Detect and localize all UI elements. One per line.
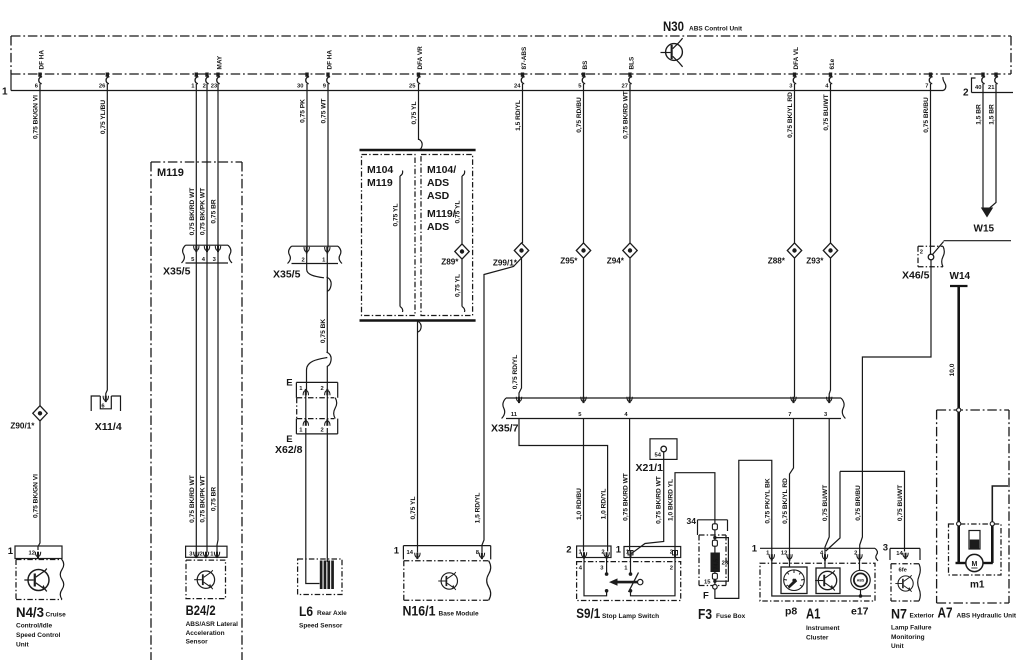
svg-text:3: 3 (189, 552, 193, 558)
svg-text:0,75 BK/RD WT: 0,75 BK/RD WT (622, 473, 629, 521)
svg-text:Fuse Box: Fuse Box (716, 613, 746, 620)
svg-text:M119: M119 (157, 167, 184, 179)
fuse box frame (698, 520, 728, 535)
svg-text:0,75 BK/RD WT: 0,75 BK/RD WT (656, 476, 663, 524)
wires X62/8 to L6 (306, 428, 320, 584)
M104/M119 left variant box (362, 155, 416, 316)
svg-text:0,75 RD/BU: 0,75 RD/BU (576, 97, 583, 133)
svg-text:1,5 RD/YL: 1,5 RD/YL (515, 100, 522, 131)
wire 0,75 BU/WT from pin 4 (830, 84, 832, 243)
svg-text:Z89*: Z89* (441, 258, 459, 267)
switch plunger (613, 581, 638, 584)
fuse element (711, 553, 720, 573)
wire 0,75 YL/BU from pin 26 (106, 84, 108, 396)
svg-text:1,5 BR: 1,5 BR (976, 104, 983, 125)
transistor in B24/2 (194, 570, 214, 589)
pin 1 (191, 73, 198, 90)
svg-text:1,0 BK/RD YL: 1,0 BK/RD YL (668, 479, 675, 521)
L6 rear axle speed sensor (298, 559, 342, 595)
svg-text:7: 7 (925, 84, 928, 90)
internal loop to terminal 23 (715, 538, 729, 582)
svg-text:0,75 BU/WT: 0,75 BU/WT (823, 94, 830, 130)
wire 0,75 WT from pin 9 (327, 84, 329, 248)
S9/1 connector 2 (pins 1,2) (566, 545, 611, 559)
svg-text:X11/4: X11/4 (95, 421, 122, 433)
svg-text:0,75 BK/RD WT: 0,75 BK/RD WT (623, 91, 630, 139)
svg-text:0,75 BK/YL RD: 0,75 BK/YL RD (782, 478, 789, 524)
svg-text:Cluster: Cluster (806, 635, 829, 642)
svg-text:p8: p8 (785, 606, 797, 618)
svg-text:ABS Control Unit: ABS Control Unit (689, 26, 743, 33)
svg-text:Monitoring: Monitoring (891, 634, 925, 641)
exit hook below box (418, 321, 422, 332)
svg-text:Z90/1*: Z90/1* (10, 422, 35, 431)
svg-text:0,75 BK/PK WT: 0,75 BK/PK WT (200, 475, 207, 522)
connector on B24/2 pins 3,2,1 (186, 546, 227, 558)
branch to X62/8 pin 1 (307, 358, 328, 391)
svg-text:0,75 BK/GN VI: 0,75 BK/GN VI (33, 95, 40, 139)
svg-text:0,75 YL: 0,75 YL (410, 497, 417, 520)
M104/ADS right variant box (421, 155, 473, 316)
svg-text:M104: M104 (367, 164, 393, 176)
svg-text:Z88*: Z88* (768, 257, 786, 266)
svg-text:2: 2 (199, 552, 202, 558)
wire 0,75 BK/RD WT from X21/1 to S9/1 pin 1 (632, 452, 664, 554)
svg-text:0,75 WT: 0,75 WT (321, 99, 328, 124)
S9/1 switch box (577, 562, 681, 601)
pin 23 MAY (211, 55, 224, 89)
svg-text:2: 2 (920, 250, 923, 256)
svg-text:5: 5 (578, 412, 582, 418)
svg-text:0,75 BR/BU: 0,75 BR/BU (923, 97, 930, 133)
wire 0,75 PK/YL BK from fuse to A1 pin 1 (715, 460, 772, 598)
node Z94* (623, 243, 637, 258)
svg-text:0,75 YL: 0,75 YL (455, 274, 462, 297)
motor m1 (957, 526, 960, 564)
wire 0,75 YL inside left box (399, 176, 401, 307)
svg-text:4: 4 (825, 84, 829, 90)
svg-text:ADS: ADS (427, 177, 449, 189)
relay element in m1 (969, 531, 980, 550)
svg-text:Instrument: Instrument (806, 625, 840, 632)
A7 hydraulic unit box (937, 410, 1009, 603)
svg-text:1,5 BR: 1,5 BR (989, 104, 996, 125)
transistor in N16/1 (438, 572, 457, 590)
svg-text:10,0: 10,0 (949, 363, 956, 376)
svg-text:30: 30 (297, 84, 303, 90)
svg-text:0,75 YL: 0,75 YL (411, 102, 418, 125)
svg-text:1: 1 (191, 84, 195, 90)
svg-text:2: 2 (566, 545, 571, 556)
svg-text:MAY: MAY (217, 55, 224, 69)
svg-text:ABS: ABS (857, 578, 865, 582)
svg-text:ABS/ASR Lateral: ABS/ASR Lateral (186, 621, 239, 628)
branch 0,75 BU/WT to N7 pin 14 (826, 471, 840, 551)
svg-text:A7: A7 (938, 606, 953, 622)
gauge p8 speedometer (781, 558, 807, 594)
wire 1,5 RD/YL from pin 24 (522, 84, 524, 243)
wire 0,75 BK/RD WT from pin 1 (195, 84, 197, 246)
svg-text:0,75 BK: 0,75 BK (320, 319, 327, 343)
wire 0,75 BU/WT from pin 3 to A1 pin 4 (825, 419, 829, 556)
pin 40 (975, 73, 985, 92)
svg-text:DF HA: DF HA (327, 50, 334, 70)
svg-text:3: 3 (883, 543, 888, 554)
svg-text:5: 5 (578, 84, 582, 90)
node Z88* (787, 243, 801, 258)
connector on N16/1 pins 14,8 (394, 546, 491, 560)
wire 0,75 PK from pin 30 (306, 84, 308, 248)
svg-text:X62/8: X62/8 (275, 444, 303, 456)
wire 0,75 YL inside right box (461, 176, 463, 244)
wire 1,0 RD/YL from pin 11 to S9/1 (519, 419, 608, 552)
svg-text:S9/1: S9/1 (576, 605, 600, 621)
svg-text:Base Module: Base Module (439, 611, 479, 618)
svg-text:6: 6 (35, 84, 39, 90)
svg-text:0,75 BU/WT: 0,75 BU/WT (822, 485, 829, 521)
pin 21 (988, 73, 998, 92)
pin 6 DF HA (35, 50, 46, 90)
svg-text:2: 2 (963, 88, 969, 99)
wire pair merging to shield (307, 264, 324, 278)
svg-text:1: 1 (210, 552, 214, 558)
svg-text:DF HA: DF HA (39, 50, 46, 70)
svg-text:2: 2 (321, 386, 324, 392)
svg-text:Control/Idle: Control/Idle (16, 623, 52, 630)
svg-text:12: 12 (29, 551, 35, 557)
svg-text:0,75 BK/PK WT: 0,75 BK/PK WT (200, 188, 207, 235)
wire Z94 to X35/7 pin 4 (629, 258, 631, 397)
svg-text:1: 1 (8, 546, 14, 557)
wire 0,75 YL to N16/1 pin 14 (417, 321, 419, 553)
svg-text:5: 5 (191, 257, 195, 263)
pin 24 87-ABS (514, 46, 528, 89)
svg-text:1: 1 (2, 87, 8, 98)
svg-text:2: 2 (301, 258, 304, 264)
svg-text:X35/5: X35/5 (163, 266, 191, 278)
svg-text:3: 3 (213, 257, 217, 263)
wire 0,75 RD/BU from pin 5 (583, 84, 585, 243)
wire Z88 to X35/7 pin 7 (794, 258, 796, 397)
transistor in N7 (895, 575, 913, 592)
pin 7 (925, 73, 932, 90)
S9/1 connector 1 (pins 1,2) (616, 545, 681, 558)
svg-text:W15: W15 (974, 224, 995, 235)
branch 1,5 RD/YL to N16/1 pin 8 (482, 258, 522, 553)
svg-text:40: 40 (975, 85, 981, 91)
svg-text:Exterior: Exterior (910, 613, 935, 620)
svg-text:0,75 PK: 0,75 PK (300, 99, 307, 123)
svg-text:0,75 YL: 0,75 YL (455, 201, 462, 224)
svg-text:3: 3 (789, 84, 793, 90)
connector on N4/3, pin 12 (8, 546, 62, 559)
B24/2 sensor box (186, 560, 226, 599)
pin 3 DFA VL (789, 47, 800, 90)
wire 0,75 YL from pin 25 (418, 84, 420, 140)
svg-text:e17: e17 (851, 606, 869, 618)
internal bus line 1 (11, 74, 946, 91)
wires 1,5 BR from pins 40,21 (982, 84, 984, 208)
svg-text:ADS: ADS (427, 221, 449, 233)
svg-text:M119/: M119/ (427, 208, 456, 220)
svg-text:26: 26 (99, 84, 106, 90)
svg-text:1: 1 (322, 258, 326, 264)
svg-text:N30: N30 (663, 18, 684, 34)
svg-text:9: 9 (323, 84, 327, 90)
svg-text:Unit: Unit (16, 642, 29, 649)
svg-text:N4/3: N4/3 (16, 605, 44, 620)
svg-text:1: 1 (394, 546, 400, 557)
svg-text:F3: F3 (698, 606, 712, 623)
svg-text:Rear Axle: Rear Axle (317, 610, 347, 617)
N30 ABS control unit box (11, 36, 1011, 74)
svg-text:25: 25 (409, 84, 416, 90)
svg-text:0,75 RD/YL: 0,75 RD/YL (512, 355, 519, 389)
svg-text:Stop Lamp Switch: Stop Lamp Switch (602, 613, 659, 620)
svg-text:B24/2: B24/2 (186, 603, 216, 618)
svg-text:M: M (971, 561, 977, 568)
wire 0,75 RD/YL to X35/7 pin 11 (519, 258, 522, 397)
svg-text:0,75 BK/RD WT: 0,75 BK/RD WT (189, 188, 196, 236)
pin 25 DFA VR (409, 46, 424, 90)
N30 internal valve/transistor symbol (661, 38, 683, 67)
svg-text:1: 1 (752, 544, 758, 555)
svg-text:0,75 YL/BU: 0,75 YL/BU (100, 100, 107, 135)
wire 0,75 BR from pin 23 (217, 84, 219, 246)
wires X35/5 down to B24/2 (195, 263, 197, 553)
N7 box (891, 564, 919, 601)
node Z89* (455, 244, 469, 259)
svg-text:4: 4 (579, 566, 583, 572)
fuse f23 chain (714, 524, 716, 584)
switch contacts right pair (630, 556, 632, 575)
connector pin 14 (890, 548, 920, 560)
connector X46/5 switch (918, 242, 944, 267)
svg-text:2: 2 (321, 428, 324, 434)
wire 1,0 BK/RD YL from S9/1 pin 2 to F3 (675, 473, 715, 550)
svg-text:23: 23 (722, 561, 729, 567)
svg-text:2: 2 (203, 84, 206, 90)
connector X35/5 pins 5,4,3 (182, 245, 233, 263)
svg-text:27: 27 (622, 84, 628, 90)
node Z93* (823, 243, 837, 258)
pin 30 (297, 73, 309, 90)
svg-text:Z93*: Z93* (806, 257, 824, 266)
pin 4 61e (825, 58, 836, 89)
svg-text:M119: M119 (367, 177, 393, 189)
svg-text:ABS Hydraulic Unit: ABS Hydraulic Unit (957, 613, 1017, 620)
svg-text:Z95*: Z95* (560, 257, 578, 266)
svg-text:0,75 BR/BU: 0,75 BR/BU (855, 485, 862, 521)
connector strip X35/7 (502, 397, 846, 419)
wire 0,75 BK/YL RD from pin 3 (794, 84, 796, 243)
gauge driver transistor (815, 558, 840, 594)
connector pins 1,12,4,2 (760, 548, 878, 561)
wire 0,75 BR/BU from pin 7 (930, 84, 932, 254)
wire 0,75 BK/PK WT from pin 2 (206, 84, 208, 246)
svg-text:1: 1 (299, 428, 303, 434)
wire 0,75 BK/GN VI to N4/3 (38, 421, 40, 550)
svg-text:15: 15 (704, 580, 711, 586)
svg-text:X46/5: X46/5 (902, 270, 930, 282)
svg-text:0,75 PK/YL BK: 0,75 PK/YL BK (764, 478, 771, 524)
svg-text:DFA VL: DFA VL (793, 47, 800, 70)
pump motor m1 box (949, 524, 1002, 575)
svg-text:3: 3 (824, 412, 828, 418)
connector X35/5 pins 2,1 (288, 246, 343, 263)
svg-text:4: 4 (624, 412, 628, 418)
switch blade (629, 573, 639, 593)
svg-text:87-ABS: 87-ABS (521, 46, 528, 69)
ABS warning lamp e17 (851, 558, 870, 598)
pin 2 (203, 73, 210, 90)
svg-text:0,75 YL: 0,75 YL (393, 204, 400, 227)
svg-text:DFA VR: DFA VR (417, 46, 424, 70)
svg-text:Cruise: Cruise (46, 612, 67, 619)
svg-text:F: F (703, 591, 709, 602)
svg-text:0,75 BR: 0,75 BR (211, 199, 218, 223)
svg-text:1: 1 (616, 545, 622, 556)
wire 0,75 BK/GN VI from pin 6 (39, 84, 41, 406)
transistor in N4/3 (24, 569, 49, 592)
M119 engine box (151, 162, 242, 660)
wire Z93 to X35/7 pin 3 (829, 258, 830, 397)
N16/1 base module box (404, 561, 489, 600)
svg-text:W14: W14 (950, 271, 971, 282)
return wire from m1 up to edge (992, 486, 1008, 522)
strain hook at box top (419, 139, 423, 150)
svg-text:1: 1 (299, 386, 303, 392)
N4/3 cruise control unit box (16, 560, 64, 600)
A1 box (760, 563, 875, 601)
svg-text:54: 54 (655, 453, 662, 459)
node Z90/1* (33, 406, 47, 421)
svg-text:1,5 RD/YL: 1,5 RD/YL (475, 493, 482, 524)
wire 0,75 YL below Z89 (461, 259, 463, 306)
internal bus line 2 (972, 78, 1014, 93)
svg-text:23: 23 (211, 84, 218, 90)
wire 0,75 BK/RD WT from pin 4 to S9/1 (629, 419, 631, 551)
svg-text:0,75 BK/GN VI: 0,75 BK/GN VI (33, 474, 40, 518)
svg-text:M104/: M104/ (427, 164, 456, 176)
svg-text:X35/7: X35/7 (491, 423, 519, 435)
connector X11/4 pin 6 (91, 396, 120, 411)
svg-text:X35/5: X35/5 (273, 269, 301, 281)
svg-text:Z94*: Z94* (607, 257, 625, 266)
svg-text:Speed Sensor: Speed Sensor (299, 623, 343, 630)
svg-text:E: E (286, 378, 292, 389)
svg-text:2: 2 (670, 566, 673, 572)
pin 9 DF HA (323, 50, 334, 90)
svg-text:BLS: BLS (629, 56, 636, 70)
svg-text:7: 7 (788, 412, 791, 418)
pin 26 (99, 73, 110, 90)
svg-text:N16/1: N16/1 (403, 604, 436, 619)
svg-text:4: 4 (202, 257, 206, 263)
svg-text:Unit: Unit (891, 643, 904, 650)
wire 0,75 BK/RD WT from pin 27 (629, 84, 631, 243)
wire 0,75 BK/YL RD from pin 7 to A1 pin 12 (790, 419, 794, 556)
wire 1,0 RD/BU from pin 5 to S9/1 (583, 419, 585, 552)
svg-text:Acceleration: Acceleration (186, 630, 225, 637)
node Z99/1* (514, 243, 528, 258)
connector X21/1 terminal 54 (650, 439, 677, 460)
svg-text:1,0 RD/YL: 1,0 RD/YL (600, 489, 607, 520)
svg-text:0,75 BK/YL RD: 0,75 BK/YL RD (787, 92, 794, 138)
svg-text:1,0 RD/BU: 1,0 RD/BU (576, 488, 583, 520)
connector X62/8 (286, 378, 338, 446)
svg-text:A1: A1 (806, 606, 821, 623)
svg-text:6fe: 6fe (899, 568, 908, 574)
internal ground bus (772, 558, 871, 597)
svg-text:24: 24 (514, 84, 521, 90)
svg-text:BS: BS (582, 60, 589, 70)
svg-text:11: 11 (511, 412, 518, 418)
switch contacts left pair (584, 557, 607, 596)
svg-text:21: 21 (988, 85, 995, 91)
splice hook top (327, 277, 332, 292)
svg-text:0,75 BR: 0,75 BR (211, 487, 218, 511)
svg-text:ASD: ASD (427, 190, 450, 202)
svg-text:3: 3 (600, 566, 604, 572)
ground W15 (981, 208, 993, 218)
node Z95* (576, 243, 590, 258)
wire Z95 to X35/7 pin 5 (583, 258, 585, 397)
svg-text:34: 34 (687, 516, 697, 526)
svg-text:1: 1 (624, 566, 628, 572)
svg-text:Sensor: Sensor (186, 639, 209, 646)
svg-text:L6: L6 (299, 604, 313, 619)
svg-text:61e: 61e (829, 58, 836, 69)
M104 box heavy borders (360, 149, 476, 151)
svg-text:Lamp Failure: Lamp Failure (891, 625, 932, 632)
svg-text:0,75 BK/RD WT: 0,75 BK/RD WT (189, 475, 196, 523)
pin 27 BLS (622, 56, 636, 90)
wire 10,0 cable from W14 to A7 pump (957, 286, 960, 524)
svg-text:m1: m1 (970, 580, 985, 591)
svg-text:74,5: 74,5 (713, 559, 719, 570)
svg-text:N7: N7 (891, 607, 907, 622)
pin 5 BS (578, 60, 589, 90)
svg-text:0,75 BU/WT: 0,75 BU/WT (897, 485, 904, 521)
svg-text:X21/1: X21/1 (636, 462, 664, 474)
svg-text:14: 14 (407, 550, 414, 556)
splice hook bottom (327, 352, 332, 367)
wire 0,75 BR/BU from X46/5 to e17 (860, 260, 931, 555)
svg-text:Speed Control: Speed Control (16, 632, 61, 639)
wire from X46/5 lever to edge (944, 240, 1011, 242)
